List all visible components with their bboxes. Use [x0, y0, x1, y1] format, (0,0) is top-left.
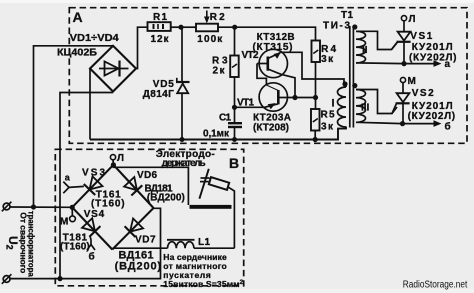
VT1 emitter arrow (PNP, pointing to base) [268, 103, 276, 109]
node C1 bottom [232, 137, 237, 142]
svg-text:КЦ402Б: КЦ402Б [57, 47, 97, 58]
svg-text:3к: 3к [321, 122, 334, 133]
svg-text:М: М [60, 217, 68, 228]
holder clamp body [209, 177, 229, 190]
svg-text:(КТ315): (КТ315) [253, 42, 293, 53]
terminal 1 (top, from welding transformer) [2, 202, 12, 212]
svg-text:VS1: VS1 [410, 31, 432, 42]
wire: VT2 base to VT1 collector [257, 64, 266, 86]
svg-text:15витков S=35мм2: 15витков S=35мм2 [163, 279, 243, 289]
diode inside bridge [99, 61, 129, 77]
node M (box A) [400, 77, 405, 82]
gate fork a [63, 182, 69, 194]
capacitor C1 [228, 123, 242, 139]
svg-text:I: I [332, 98, 335, 110]
transistor VT1 KT203A [259, 83, 315, 111]
wire: L node to electrode workpiece [113, 165, 188, 205]
svg-text:ВД161: ВД161 [119, 249, 154, 261]
svg-text:3к: 3к [321, 54, 334, 65]
svg-text:Л: Л [409, 14, 416, 25]
wire: VT1 emitter to C1 node [235, 106, 264, 108]
electrode rod [199, 169, 208, 199]
svg-text:VS2: VS2 [412, 88, 434, 99]
wire: terminal1 to M corner [10, 206, 72, 208]
bottom rail of box A [90, 127, 346, 140]
svg-text:(Т160): (Т160) [60, 241, 90, 252]
node L circle (box V bridge) [110, 155, 115, 165]
wire: clamp to L1 wire [228, 187, 235, 248]
resistor R3 [230, 27, 239, 122]
svg-text:III: III [361, 103, 370, 114]
svg-text:R1: R1 [153, 12, 167, 23]
workpiece bar [190, 205, 232, 209]
node R5 bottom [313, 137, 318, 142]
winding II [356, 31, 404, 63]
zener VD5 D814G [176, 27, 190, 139]
transistor VT2 KT312V [257, 49, 287, 77]
resistor R2 (variable) [181, 11, 235, 32]
inductor L1 [167, 240, 234, 248]
svg-text:VD7: VD7 [135, 235, 156, 246]
node R2/R3 top [232, 25, 237, 30]
diode VD7 VD161 [125, 219, 144, 238]
wire: VT2 collector down to VT1 base line [281, 74, 295, 97]
node R3/C1/VT1e [232, 105, 237, 110]
svg-text:RadioStorage.net: RadioStorage.net [403, 280, 468, 291]
svg-text:М: М [408, 76, 416, 87]
svg-text:0,1мк: 0,1мк [203, 128, 230, 139]
svg-text:100к: 100к [197, 34, 223, 45]
wire: AC1 riser [34, 46, 114, 207]
transformer T1 core [350, 26, 354, 128]
thyristor VS2 KU201L [392, 83, 410, 124]
svg-text:II: II [362, 45, 368, 56]
svg-text:(ВД200): (ВД200) [147, 192, 185, 203]
svg-text:Д814Г: Д814Г [143, 89, 174, 100]
svg-text:а: а [445, 59, 451, 70]
svg-text:L1: L1 [198, 237, 210, 248]
node M circle (box V bridge) [70, 207, 76, 221]
svg-text:б: б [89, 251, 95, 263]
wire: bridge plus output up to R1 [136, 27, 148, 68]
thyristor VS4 T181 [82, 218, 100, 244]
bridge V arms [72, 165, 153, 250]
svg-text:2к: 2к [213, 66, 226, 77]
node L (box A) [401, 16, 406, 21]
svg-text:(КУ202Л): (КУ202Л) [408, 111, 456, 122]
wire: AC2 riser [60, 93, 113, 279]
svg-text:VD1÷VD4: VD1÷VD4 [70, 33, 119, 44]
resistor R4 [312, 41, 321, 110]
dashed box V [55, 149, 243, 285]
svg-text:КУ201Л: КУ201Л [412, 42, 453, 53]
gate fork b [87, 245, 95, 251]
svg-text:Т1: Т1 [341, 10, 353, 21]
node dot AC2/terminal2 [57, 276, 62, 281]
wire: terminal2 bottom run [10, 208, 161, 278]
VT2 emitter arrow [274, 52, 281, 59]
svg-text:трансформатора: трансформатора [26, 211, 36, 277]
resistor R5 [311, 109, 320, 140]
wire: VT2 emitter to winding I [280, 52, 344, 84]
node R4/R5/VT1b [313, 95, 318, 100]
wire: top rail to R4 [235, 27, 316, 40]
svg-text:12к: 12к [151, 34, 170, 45]
svg-text:Л: Л [117, 153, 124, 164]
svg-text:А: А [73, 9, 83, 25]
wire: bridge minus down to bottom rail [89, 69, 91, 140]
holder jaws [201, 177, 210, 179]
svg-text:С1: С1 [219, 113, 231, 124]
winding I [338, 85, 347, 128]
diode VD6 VD181 [124, 177, 142, 196]
output arrow a [404, 63, 437, 65]
svg-text:VD6: VD6 [137, 170, 157, 181]
output arrow b [403, 123, 438, 125]
svg-text:VS4: VS4 [84, 209, 105, 220]
svg-text:(КТ208): (КТ208) [253, 122, 289, 133]
svg-text:б: б [445, 120, 451, 132]
svg-text:ТИ-3: ТИ-3 [323, 21, 350, 32]
svg-text:В: В [229, 155, 239, 171]
thyristor VS3 T161 [69, 176, 103, 195]
resistor R1 [148, 22, 182, 31]
thyristor VS1 KU201L [392, 21, 411, 64]
svg-text:VS3: VS3 [82, 168, 105, 179]
wire: bridge bottom to L1 [111, 248, 114, 249]
dashed box A [69, 8, 467, 144]
node dot AC1/terminal wire [31, 204, 36, 209]
node R1/R2/VD5 [178, 25, 183, 30]
svg-text:держатель: держатель [162, 158, 206, 169]
node VD5 bottom [180, 137, 185, 142]
rectifier bridge VD1-VD4 KC402B diamond [90, 46, 136, 92]
svg-text:R5: R5 [321, 110, 335, 121]
svg-text:(ВД200): (ВД200) [115, 261, 162, 273]
terminal 2 (bottom, from welding transformer) [2, 274, 12, 284]
winding III [356, 90, 403, 124]
